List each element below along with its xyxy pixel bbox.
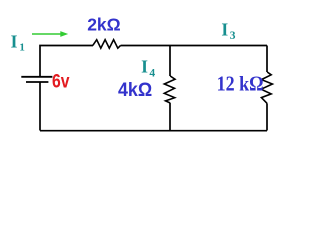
svg-text:4kΩ: 4kΩ (118, 79, 152, 101)
svg-text:I3: I3 (221, 19, 235, 41)
wire: bottom horizontal (40, 130, 267, 132)
svg-text:6v: 6v (52, 71, 70, 92)
current arrow I1 (green) (32, 31, 68, 37)
resistor R3 12kΩ zigzag (261, 72, 272, 103)
svg-text:I4: I4 (141, 57, 155, 80)
resistor R2 4kΩ zigzag (164, 76, 175, 103)
svg-text:12 kΩ: 12 kΩ (217, 72, 264, 96)
svg-text:2kΩ: 2kΩ (87, 14, 121, 34)
battery B1 short plate (-) (26, 81, 48, 83)
wire: right vertical lower (R3 to bottom-right corner) (266, 103, 268, 130)
wire: middle branch upper (node A down to R2) (169, 46, 171, 77)
wire: left vertical upper (battery + to top-left corner) and top-left horizontal (40, 46, 93, 77)
wire: top right segment (node A to top-right corner) (170, 45, 267, 47)
wire: right vertical upper (top-right corner down to R3) (266, 46, 268, 73)
resistor R1 2kΩ zigzag (93, 40, 121, 49)
wire: top middle segment (R1 to node A) (121, 45, 170, 47)
battery B1 long plate (+) (21, 76, 52, 78)
wire: left vertical lower (battery - to bottom-left corner) (39, 82, 41, 131)
wire: middle branch lower (R2 to bottom wire) (169, 103, 171, 131)
svg-text:I1: I1 (11, 31, 25, 53)
